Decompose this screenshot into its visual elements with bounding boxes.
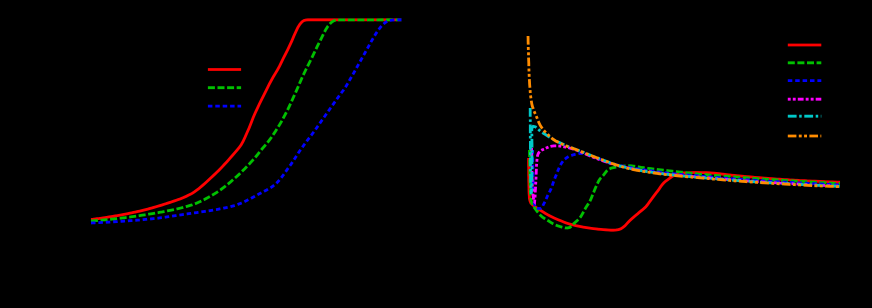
right legend red sample <box>788 44 822 47</box>
right plot green curve <box>530 150 841 228</box>
right legend green sample <box>788 61 822 64</box>
right plot red curve <box>529 158 840 230</box>
right plot magenta curve <box>532 146 840 202</box>
right plot blue curve <box>533 150 840 209</box>
right legend blue sample <box>788 79 822 82</box>
right legend orange sample <box>788 135 822 138</box>
right plot orange curve <box>528 36 840 187</box>
left plot green curve <box>91 20 402 221</box>
right plot cyan curve <box>530 108 840 194</box>
left legend red sample <box>208 68 241 71</box>
left plot red curve <box>91 20 402 220</box>
right legend cyan sample <box>788 115 822 118</box>
left legend blue sample <box>208 105 241 108</box>
right legend magenta sample <box>788 98 822 101</box>
left legend green sample <box>208 86 241 89</box>
left plot blue curve <box>91 20 402 223</box>
